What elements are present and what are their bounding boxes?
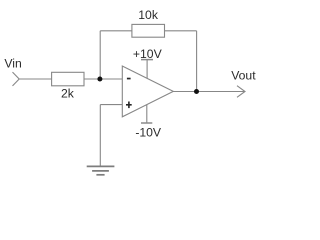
ground bar 3	[96, 174, 104, 176]
svg-text:Vin: Vin	[4, 57, 21, 71]
op-amp U1 triangle	[122, 66, 173, 117]
power +10V terminal bar	[141, 59, 153, 61]
wire output to Vout	[173, 91, 245, 93]
node junction at output	[194, 89, 199, 94]
ground bar 1	[87, 165, 115, 167]
wire feedback right vertical to output node	[196, 31, 198, 92]
wire feedback top right horizontal	[165, 30, 197, 32]
wire +10V supply stub	[146, 60, 148, 79]
svg-text:-10V: -10V	[135, 126, 162, 140]
power -10V terminal bar	[141, 122, 152, 124]
svg-text:10k: 10k	[138, 8, 159, 22]
svg-text:2k: 2k	[61, 87, 75, 101]
wire feedback left vertical	[99, 31, 101, 79]
node junction at inverting input	[97, 77, 102, 82]
ground bar 2	[92, 170, 109, 172]
resistor 10k body	[132, 24, 165, 37]
wire feedback top left horizontal	[100, 30, 132, 32]
svg-text:Vout: Vout	[231, 69, 256, 83]
wire non-inverting input horizontal	[100, 104, 122, 106]
wire Vin to R 2k	[19, 78, 51, 80]
wire R 2k to op-amp inverting input	[84, 78, 122, 80]
op-amp minus mark	[127, 78, 131, 80]
wire -10V supply stub	[146, 105, 148, 123]
terminal Vout arrow chevron	[237, 86, 245, 98]
resistor 2k body	[52, 72, 84, 86]
svg-text:+10V: +10V	[133, 47, 163, 61]
wire ground vertical	[99, 105, 101, 167]
terminal Vin input chevron	[13, 72, 20, 86]
op-amp plus mark	[126, 102, 132, 109]
